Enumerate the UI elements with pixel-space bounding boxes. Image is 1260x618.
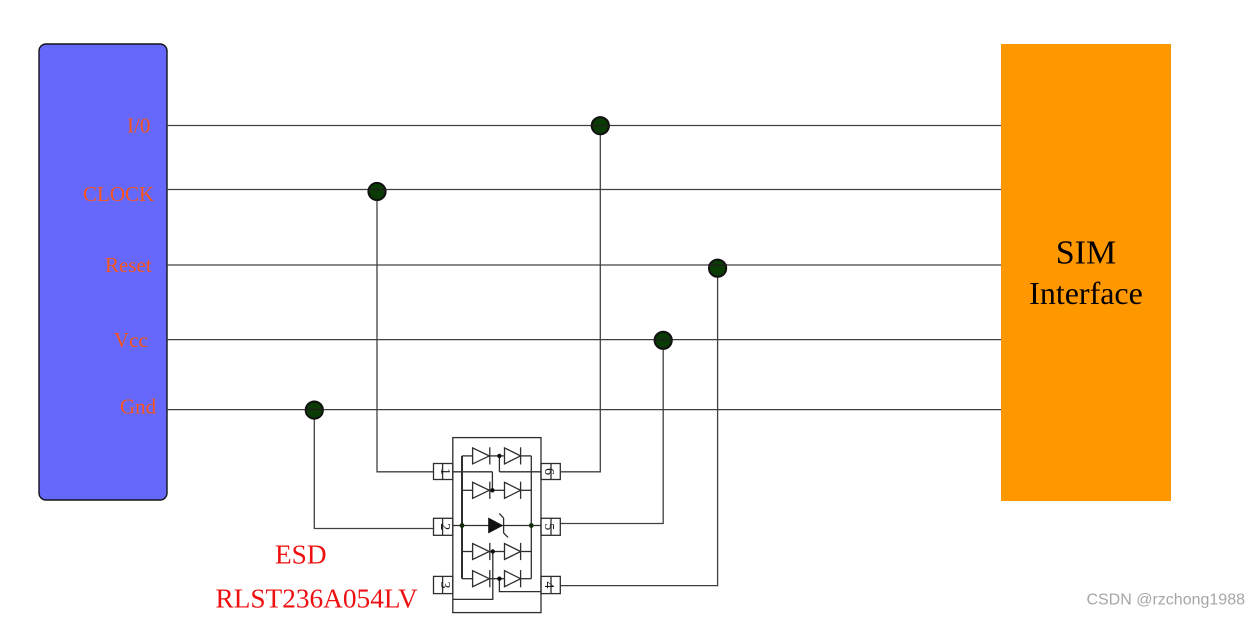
svg-text:Reset: Reset: [105, 253, 152, 277]
svg-text:Gnd: Gnd: [120, 395, 157, 419]
ESD suppressor U1 RLST236A054LV: [434, 438, 561, 613]
wire I/0 net: [167, 125, 1001, 127]
diode D2a row2 left: [462, 489, 473, 491]
wire Gnd net: [167, 409, 1001, 411]
junction row4 tap: [497, 577, 501, 581]
pin 2 box: [434, 518, 453, 535]
chip body: [453, 438, 541, 613]
junction right rail / zener: [529, 523, 534, 528]
diode D2b row2 right: [490, 489, 505, 491]
row1 tap to pin 6: [498, 456, 500, 472]
junction row3 tap: [491, 549, 495, 553]
wire Reset drop to pin 4: [560, 265, 717, 586]
pin1 lead to row2 tap: [453, 471, 493, 473]
junction node on I/0: [592, 117, 609, 134]
wire chord over Reset node: [708, 264, 727, 266]
pin 3 box: [434, 576, 453, 593]
row3 tap to pin 3: [453, 552, 493, 600]
svg-text:CLOCK: CLOCK: [83, 182, 154, 206]
svg-text:I/0: I/0: [127, 114, 150, 138]
zener row line pin2-pin5: [453, 525, 541, 527]
junction node on Gnd: [306, 402, 323, 419]
diode D4a row4 left: [462, 578, 473, 580]
svg-text:ESD: ESD: [275, 539, 327, 569]
svg-text:6: 6: [541, 468, 556, 475]
diode D1b row1 right: [490, 455, 505, 457]
diode D4b row4 right: [490, 578, 505, 580]
wire chord over Gnd node: [305, 409, 324, 411]
svg-text:Vcc: Vcc: [114, 328, 148, 352]
left gnd rail: [461, 456, 463, 579]
junction row2 tap: [490, 488, 494, 492]
wire Vcc drop to pin 5: [560, 340, 663, 524]
svg-text:2: 2: [437, 523, 452, 530]
svg-text:4: 4: [541, 582, 556, 589]
wire CLOCK drop to pin 1: [377, 190, 434, 472]
svg-text:1: 1: [437, 468, 452, 475]
right rail: [530, 456, 532, 579]
zener TVS diode: [488, 518, 503, 534]
junction row1 tap: [497, 454, 501, 458]
MCU block (blue): [39, 44, 167, 500]
wire chord over I/0 node: [591, 125, 611, 127]
pin 6 box: [541, 464, 560, 480]
svg-text:CSDN @rzchong1988: CSDN @rzchong1988: [1086, 592, 1245, 609]
wire CLOCK net: [167, 189, 1001, 191]
wire chord over Vcc node: [654, 339, 673, 341]
junction node on Reset: [709, 260, 726, 277]
svg-text:RLST236A054LV: RLST236A054LV: [216, 584, 419, 614]
wire Gnd drop to pin 2: [314, 410, 433, 529]
svg-text:Interface: Interface: [1029, 275, 1143, 311]
junction left rail / zener: [460, 523, 465, 528]
pin 1 box: [434, 464, 453, 480]
pin 5 box: [541, 518, 560, 535]
svg-text:3: 3: [437, 582, 452, 589]
wire Reset net: [167, 264, 1001, 266]
diode D3a row3 left: [462, 551, 473, 553]
junction node on Vcc: [655, 332, 672, 349]
junction node on CLOCK: [368, 183, 385, 200]
diode D1a row1 left: [462, 455, 473, 457]
row4 tap to pin 4: [499, 579, 541, 592]
SIM Interface block (orange): [1001, 44, 1171, 501]
pin 4 box: [541, 576, 560, 593]
wire Vcc net: [167, 339, 1001, 341]
diode D3b row3 right: [490, 551, 505, 553]
svg-text:5: 5: [541, 523, 556, 530]
svg-text:SIM: SIM: [1056, 235, 1116, 272]
wire I/0 drop to pin 6: [560, 126, 600, 472]
wire chord over CLOCK node: [368, 189, 387, 191]
